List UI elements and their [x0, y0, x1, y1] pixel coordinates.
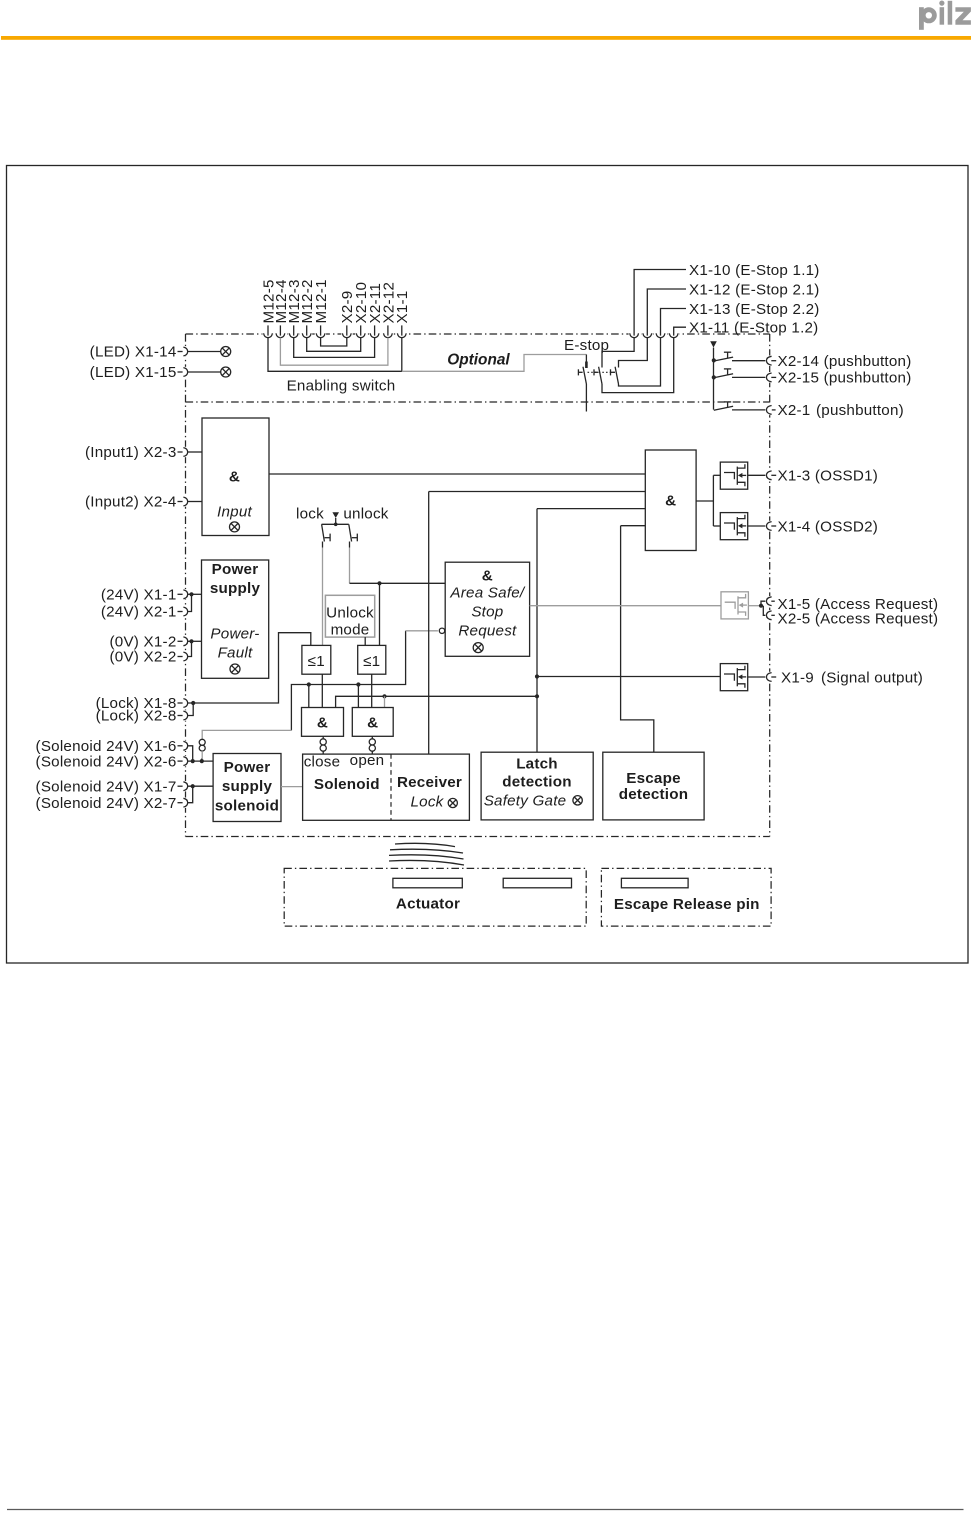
- svg-text:X2-1: X2-1: [778, 402, 811, 419]
- svg-text:X1-13 (E-Stop 2.2): X1-13 (E-Stop 2.2): [689, 301, 820, 318]
- svg-text:solenoid: solenoid: [215, 798, 279, 815]
- svg-text:(24V) X2-1: (24V) X2-1: [101, 604, 177, 621]
- svg-text:X1-4 (OSSD2): X1-4 (OSSD2): [778, 518, 879, 535]
- svg-text:Power: Power: [224, 759, 271, 776]
- svg-text:X2-5 (Access Request): X2-5 (Access Request): [778, 610, 939, 627]
- svg-text:(24V) X1-1: (24V) X1-1: [101, 587, 177, 604]
- svg-text:&: &: [229, 469, 240, 486]
- svg-text:&: &: [665, 493, 676, 510]
- svg-text:(LED) X1-14: (LED) X1-14: [90, 344, 177, 361]
- svg-text:open: open: [350, 752, 385, 769]
- svg-text:&: &: [482, 567, 493, 584]
- svg-text:Area Safe/: Area Safe/: [449, 585, 526, 602]
- svg-text:Actuator: Actuator: [396, 895, 460, 912]
- svg-text:(Signal output): (Signal output): [821, 669, 923, 686]
- svg-text:&: &: [317, 715, 328, 732]
- svg-text:Latch: Latch: [516, 755, 558, 772]
- svg-text:Lock: Lock: [411, 794, 445, 811]
- svg-text:X1-1: X1-1: [394, 291, 411, 324]
- svg-text:Optional: Optional: [447, 352, 510, 369]
- svg-text:Power-: Power-: [210, 626, 259, 643]
- svg-text:Safety Gate: Safety Gate: [484, 792, 567, 809]
- svg-text:X1-9: X1-9: [781, 669, 814, 686]
- svg-text:detection: detection: [502, 774, 572, 791]
- svg-text:Unlock: Unlock: [326, 605, 374, 622]
- svg-text:supply: supply: [222, 778, 273, 795]
- svg-text:Fault: Fault: [218, 644, 253, 661]
- svg-text:X1-10 (E-Stop 1.1): X1-10 (E-Stop 1.1): [689, 262, 820, 279]
- svg-text:Escape: Escape: [626, 770, 681, 787]
- svg-text:≤1: ≤1: [363, 653, 380, 670]
- svg-text:(Input2) X2-4: (Input2) X2-4: [85, 494, 177, 511]
- svg-text:&: &: [367, 715, 378, 732]
- svg-text:supply: supply: [210, 580, 261, 597]
- svg-text:(Lock) X2-8: (Lock) X2-8: [96, 708, 177, 725]
- svg-text:X1-11 (E-Stop 1.2): X1-11 (E-Stop 1.2): [689, 320, 818, 337]
- svg-text:mode: mode: [331, 621, 370, 638]
- svg-text:Receiver: Receiver: [397, 774, 462, 791]
- svg-text:(LED) X1-15: (LED) X1-15: [90, 364, 177, 381]
- svg-text:Enabling switch: Enabling switch: [287, 378, 396, 395]
- svg-text:(pushbutton): (pushbutton): [816, 402, 904, 419]
- svg-text:(Input1) X2-3: (Input1) X2-3: [85, 444, 177, 461]
- svg-text:Power: Power: [212, 561, 259, 578]
- svg-text:Escape Release pin: Escape Release pin: [614, 896, 760, 913]
- svg-text:close: close: [304, 753, 341, 770]
- svg-text:(0V) X2-2: (0V) X2-2: [110, 649, 177, 666]
- svg-text:X1-3 (OSSD1): X1-3 (OSSD1): [778, 468, 879, 485]
- svg-text:(Solenoid 24V) X1-7: (Solenoid 24V) X1-7: [36, 778, 177, 795]
- svg-text:X2-14 (pushbutton): X2-14 (pushbutton): [778, 353, 912, 370]
- svg-text:(Solenoid 24V) X2-7: (Solenoid 24V) X2-7: [36, 795, 177, 812]
- svg-text:M12-1: M12-1: [313, 279, 330, 323]
- svg-text:(Solenoid 24V) X2-6: (Solenoid 24V) X2-6: [36, 753, 177, 770]
- svg-text:lock: lock: [296, 506, 324, 523]
- svg-text:Input: Input: [217, 504, 252, 521]
- svg-text:Stop: Stop: [471, 604, 503, 621]
- svg-text:unlock: unlock: [343, 506, 388, 523]
- svg-text:≤1: ≤1: [308, 653, 325, 670]
- svg-text:detection: detection: [619, 786, 689, 803]
- svg-text:X1-12 (E-Stop 2.1): X1-12 (E-Stop 2.1): [689, 281, 820, 298]
- svg-text:X2-15 (pushbutton): X2-15 (pushbutton): [778, 370, 912, 387]
- svg-text:Request: Request: [458, 623, 517, 640]
- svg-text:Solenoid: Solenoid: [314, 776, 380, 793]
